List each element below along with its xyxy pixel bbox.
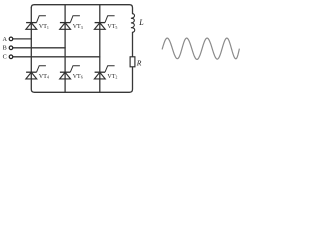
svg-text:VT1: VT1 <box>39 24 49 30</box>
wire leg 2 <box>64 5 66 93</box>
thyristor VT5 <box>94 16 114 30</box>
thyristor VT4 <box>26 66 46 79</box>
terminal A <box>9 37 13 41</box>
wire phase A line <box>13 38 31 40</box>
inductor L coil <box>131 14 135 33</box>
svg-text:C: C <box>3 54 7 61</box>
svg-text:B: B <box>3 45 7 52</box>
thyristor VT1 <box>26 16 46 30</box>
svg-text:L: L <box>138 18 144 27</box>
wire top bus with rounded corners down to inductor top <box>31 5 132 14</box>
thyristor VT6 <box>60 66 80 79</box>
sine wave <box>162 38 239 59</box>
svg-text:A: A <box>2 36 7 43</box>
svg-text:VT6: VT6 <box>73 74 83 80</box>
svg-text:VT5: VT5 <box>107 24 117 30</box>
svg-text:VT2: VT2 <box>107 74 117 80</box>
thyristor VT2 <box>94 66 114 79</box>
wire leg 3 <box>99 5 101 93</box>
terminal B <box>9 46 13 50</box>
terminal C <box>9 55 13 59</box>
svg-text:R: R <box>136 58 142 67</box>
svg-text:VT4: VT4 <box>39 74 49 80</box>
wire phase B line <box>13 47 65 49</box>
wire right edge between inductor and resistor <box>132 32 134 56</box>
resistor R <box>130 57 135 67</box>
wire left edge and bottom bus up to resistor bottom <box>31 8 132 93</box>
wire phase C line <box>13 56 100 58</box>
thyristor VT3 <box>60 16 80 30</box>
svg-text:VT3: VT3 <box>73 24 83 30</box>
